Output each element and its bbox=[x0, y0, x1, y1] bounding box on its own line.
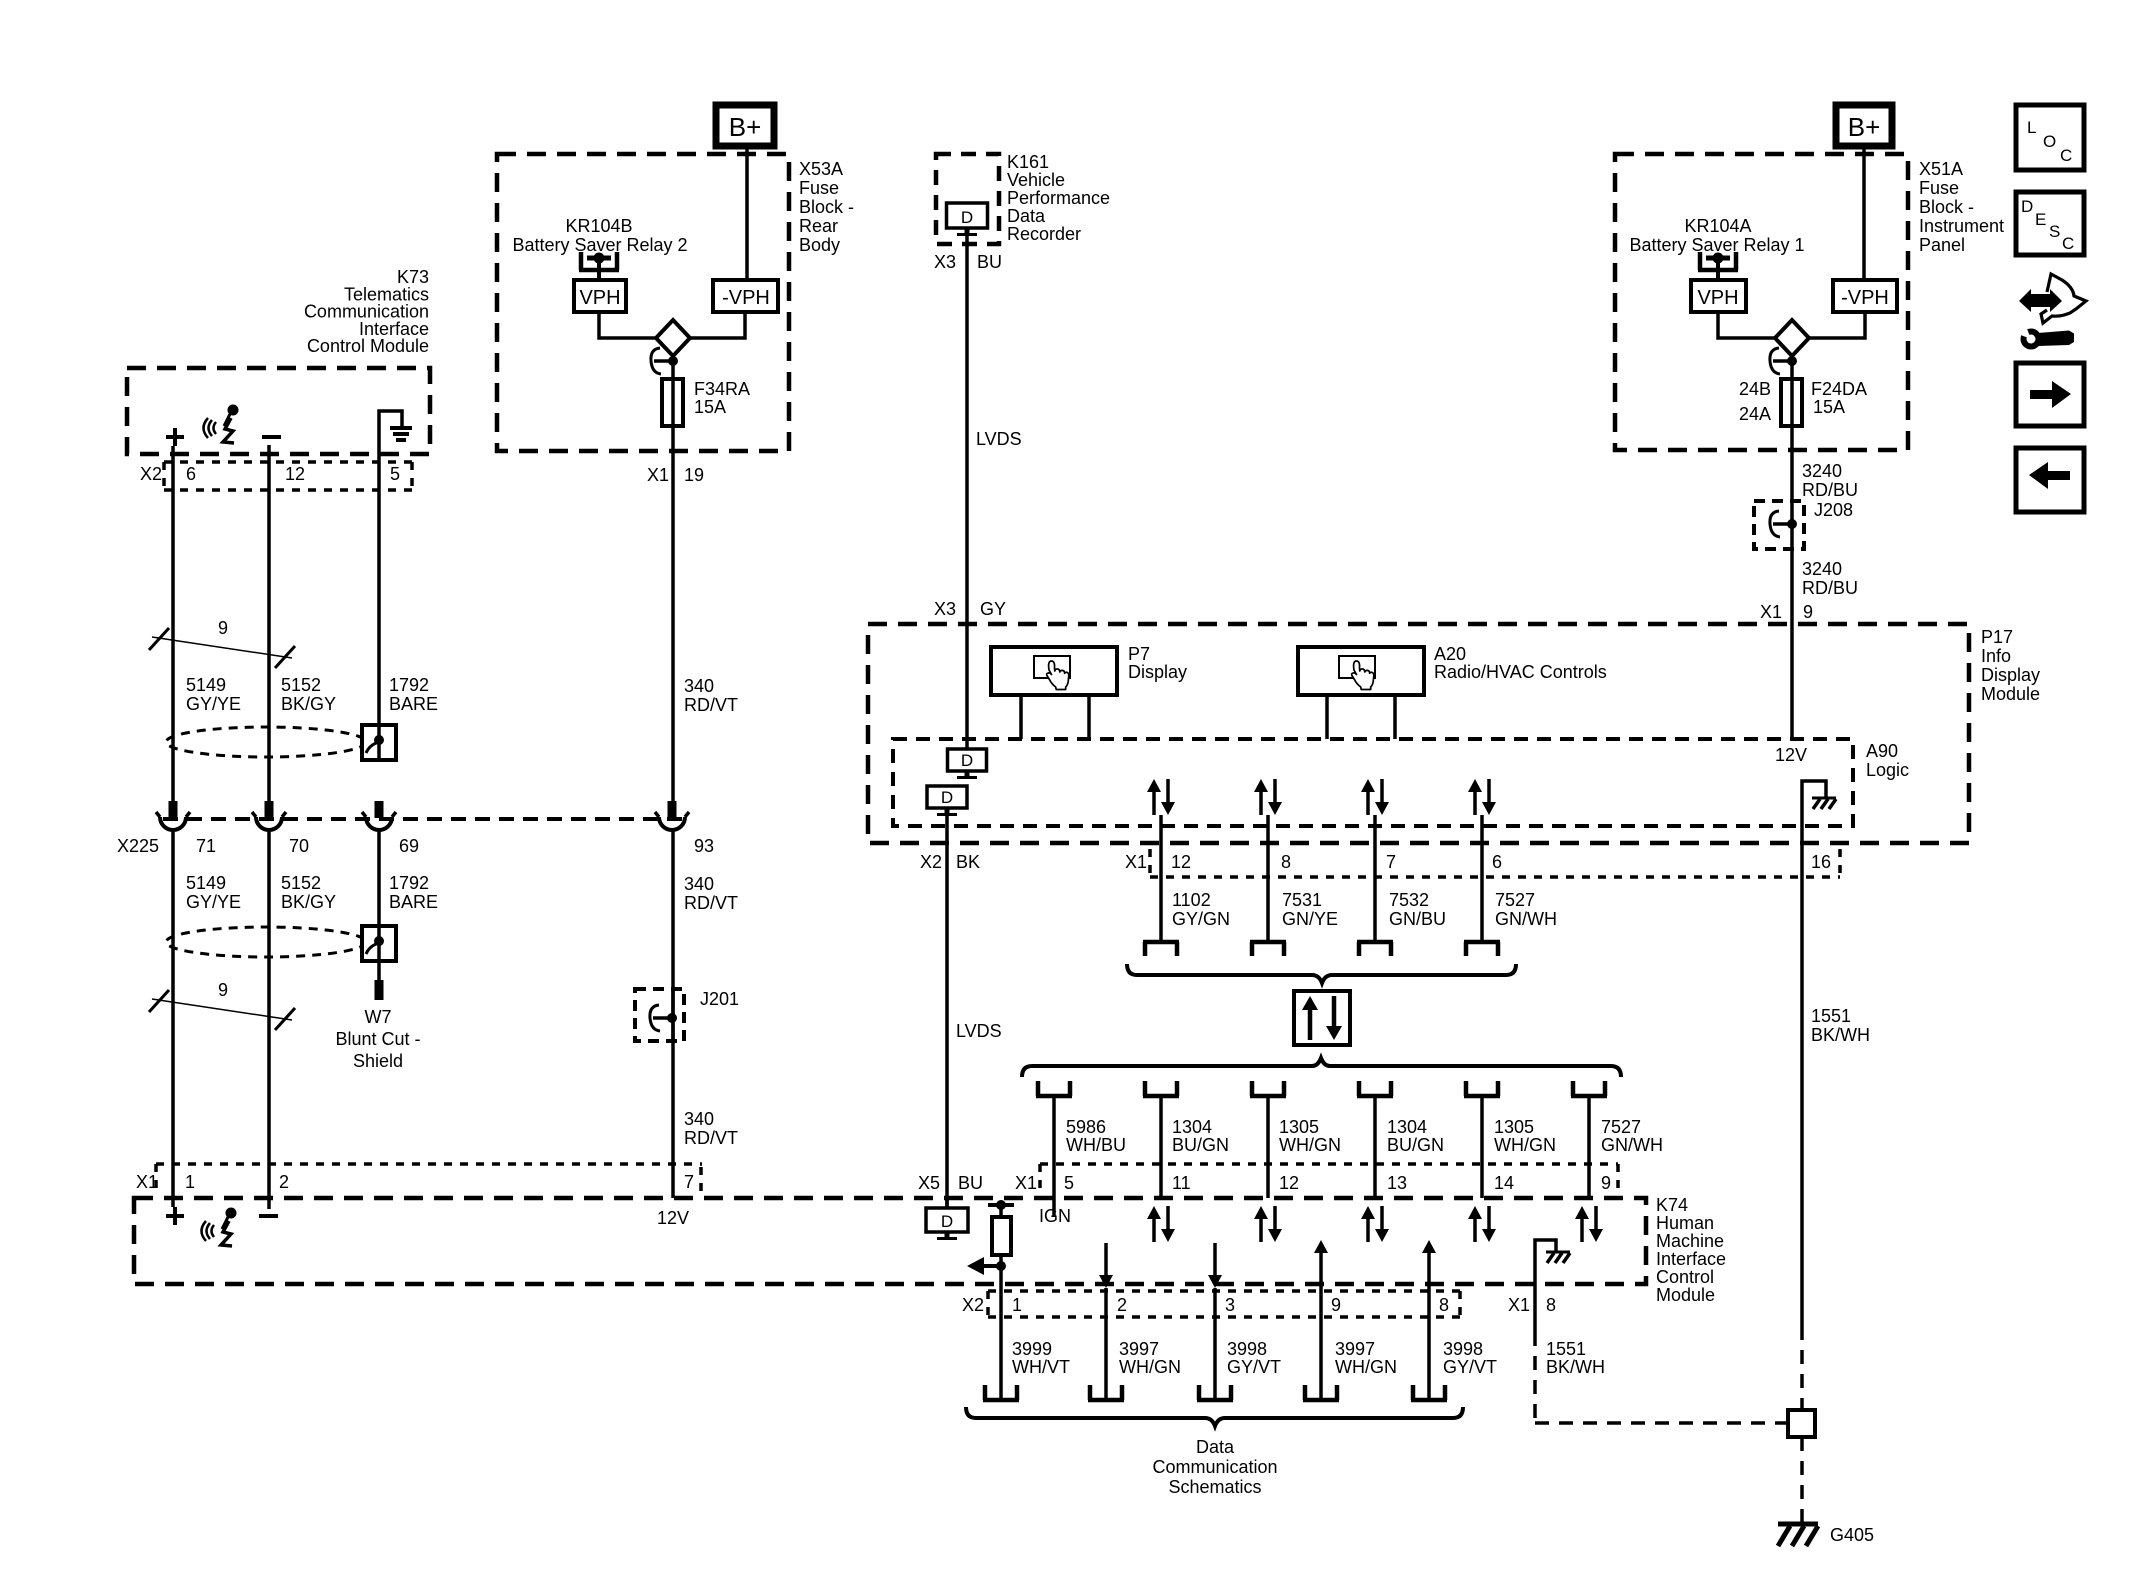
svg-text:12: 12 bbox=[1279, 1173, 1299, 1193]
svg-text:WH/GN: WH/GN bbox=[1119, 1357, 1181, 1377]
svg-text:Block -: Block - bbox=[799, 197, 854, 217]
svg-text:1792: 1792 bbox=[389, 873, 429, 893]
svg-text:X2: X2 bbox=[140, 464, 162, 484]
svg-text:Battery Saver Relay 1: Battery Saver Relay 1 bbox=[1629, 235, 1804, 255]
svg-text:340: 340 bbox=[684, 1109, 714, 1129]
svg-text:Blunt Cut -: Blunt Cut - bbox=[335, 1029, 420, 1049]
svg-text:GN/YE: GN/YE bbox=[1282, 909, 1338, 929]
svg-text:Data: Data bbox=[1196, 1437, 1235, 1457]
svg-text:GN/WH: GN/WH bbox=[1495, 909, 1557, 929]
svg-text:D: D bbox=[941, 788, 953, 807]
svg-text:B+: B+ bbox=[1848, 112, 1881, 142]
svg-text:F34RA: F34RA bbox=[694, 379, 750, 399]
svg-text:1551: 1551 bbox=[1546, 1339, 1586, 1359]
svg-text:Fuse: Fuse bbox=[1919, 178, 1959, 198]
svg-text:Panel: Panel bbox=[1919, 235, 1965, 255]
svg-text:-VPH: -VPH bbox=[722, 287, 770, 309]
svg-text:3997: 3997 bbox=[1335, 1339, 1375, 1359]
svg-text:71: 71 bbox=[196, 836, 216, 856]
svg-text:Human: Human bbox=[1656, 1213, 1714, 1233]
svg-text:E: E bbox=[2035, 210, 2046, 229]
svg-text:WH/GN: WH/GN bbox=[1335, 1357, 1397, 1377]
svg-text:5: 5 bbox=[1064, 1173, 1074, 1193]
svg-text:WH/GN: WH/GN bbox=[1494, 1135, 1556, 1155]
svg-text:1: 1 bbox=[185, 1172, 195, 1192]
svg-text:12V: 12V bbox=[1775, 745, 1807, 765]
svg-text:D: D bbox=[2021, 197, 2033, 216]
svg-text:Battery Saver Relay 2: Battery Saver Relay 2 bbox=[512, 235, 687, 255]
svg-text:D: D bbox=[941, 1212, 953, 1231]
svg-text:D: D bbox=[961, 208, 973, 227]
svg-text:340: 340 bbox=[684, 874, 714, 894]
svg-text:5: 5 bbox=[390, 464, 400, 484]
svg-text:1305: 1305 bbox=[1494, 1117, 1534, 1137]
svg-text:6: 6 bbox=[186, 464, 196, 484]
svg-text:BK/GY: BK/GY bbox=[281, 694, 336, 714]
svg-text:GY/YE: GY/YE bbox=[186, 892, 241, 912]
svg-text:GN/WH: GN/WH bbox=[1601, 1135, 1663, 1155]
svg-text:D: D bbox=[961, 751, 973, 770]
svg-text:1551: 1551 bbox=[1811, 1006, 1851, 1026]
svg-text:X1: X1 bbox=[1015, 1173, 1037, 1193]
svg-text:S: S bbox=[2049, 222, 2060, 241]
svg-text:8: 8 bbox=[1281, 852, 1291, 872]
svg-text:A90: A90 bbox=[1866, 741, 1898, 761]
svg-text:LVDS: LVDS bbox=[976, 429, 1022, 449]
svg-text:7: 7 bbox=[1386, 852, 1396, 872]
svg-text:Instrument: Instrument bbox=[1919, 216, 2004, 236]
svg-text:70: 70 bbox=[289, 836, 309, 856]
svg-text:5149: 5149 bbox=[186, 675, 226, 695]
svg-text:5152: 5152 bbox=[281, 675, 321, 695]
svg-text:1792: 1792 bbox=[389, 675, 429, 695]
svg-text:24A: 24A bbox=[1739, 404, 1771, 424]
svg-text:Info: Info bbox=[1981, 646, 2011, 666]
svg-text:Interface: Interface bbox=[1656, 1249, 1726, 1269]
svg-text:X3: X3 bbox=[934, 599, 956, 619]
svg-text:J201: J201 bbox=[700, 989, 739, 1009]
svg-text:BARE: BARE bbox=[389, 694, 438, 714]
svg-text:X1: X1 bbox=[1508, 1295, 1530, 1315]
svg-text:BU/GN: BU/GN bbox=[1387, 1135, 1444, 1155]
svg-text:C: C bbox=[2062, 234, 2074, 253]
svg-text:RD/VT: RD/VT bbox=[684, 695, 738, 715]
svg-text:Machine: Machine bbox=[1656, 1231, 1724, 1251]
svg-text:9: 9 bbox=[1601, 1173, 1611, 1193]
svg-text:Vehicle: Vehicle bbox=[1007, 170, 1065, 190]
svg-text:5149: 5149 bbox=[186, 873, 226, 893]
svg-text:7531: 7531 bbox=[1282, 890, 1322, 910]
svg-text:WH/GN: WH/GN bbox=[1279, 1135, 1341, 1155]
svg-text:GN/BU: GN/BU bbox=[1389, 909, 1446, 929]
svg-text:Logic: Logic bbox=[1866, 760, 1909, 780]
svg-text:WH/VT: WH/VT bbox=[1012, 1357, 1070, 1377]
svg-text:Performance: Performance bbox=[1007, 188, 1110, 208]
svg-text:O: O bbox=[2043, 132, 2056, 151]
svg-text:F24DA: F24DA bbox=[1811, 379, 1867, 399]
svg-text:G405: G405 bbox=[1830, 1525, 1874, 1545]
svg-text:WH/BU: WH/BU bbox=[1066, 1135, 1126, 1155]
svg-text:BU: BU bbox=[977, 252, 1002, 272]
svg-text:3240: 3240 bbox=[1802, 461, 1842, 481]
svg-text:1304: 1304 bbox=[1172, 1117, 1212, 1137]
svg-text:3: 3 bbox=[1225, 1295, 1235, 1315]
svg-text:RD/BU: RD/BU bbox=[1802, 578, 1858, 598]
svg-text:X2: X2 bbox=[920, 852, 942, 872]
svg-text:KR104B: KR104B bbox=[565, 216, 632, 236]
svg-text:9: 9 bbox=[1803, 602, 1813, 622]
svg-text:RD/BU: RD/BU bbox=[1802, 480, 1858, 500]
svg-text:8: 8 bbox=[1439, 1295, 1449, 1315]
svg-text:12V: 12V bbox=[657, 1208, 689, 1228]
svg-text:X2: X2 bbox=[962, 1295, 984, 1315]
svg-text:9: 9 bbox=[218, 980, 228, 1000]
svg-text:X225: X225 bbox=[117, 836, 159, 856]
svg-text:K74: K74 bbox=[1656, 1195, 1688, 1215]
svg-text:-VPH: -VPH bbox=[1841, 287, 1889, 309]
svg-text:X51A: X51A bbox=[1919, 159, 1963, 179]
svg-text:Rear: Rear bbox=[799, 216, 838, 236]
svg-text:LVDS: LVDS bbox=[956, 1021, 1002, 1041]
svg-text:Body: Body bbox=[799, 235, 840, 255]
svg-text:8: 8 bbox=[1546, 1295, 1556, 1315]
svg-text:12: 12 bbox=[1171, 852, 1191, 872]
svg-text:X1: X1 bbox=[647, 465, 669, 485]
svg-text:Display: Display bbox=[1128, 662, 1187, 682]
svg-text:1: 1 bbox=[1012, 1295, 1022, 1315]
svg-text:Recorder: Recorder bbox=[1007, 224, 1081, 244]
svg-text:RD/VT: RD/VT bbox=[684, 1128, 738, 1148]
svg-text:BU/GN: BU/GN bbox=[1172, 1135, 1229, 1155]
svg-text:C: C bbox=[2060, 146, 2072, 165]
svg-text:GY: GY bbox=[980, 599, 1006, 619]
svg-text:GY/GN: GY/GN bbox=[1172, 909, 1230, 929]
svg-text:BU: BU bbox=[958, 1173, 983, 1193]
svg-text:5986: 5986 bbox=[1066, 1117, 1106, 1137]
svg-text:16: 16 bbox=[1811, 852, 1831, 872]
svg-text:BK: BK bbox=[956, 852, 980, 872]
svg-text:Radio/HVAC Controls: Radio/HVAC Controls bbox=[1434, 662, 1607, 682]
svg-text:11: 11 bbox=[1172, 1173, 1191, 1193]
svg-text:VPH: VPH bbox=[579, 287, 620, 309]
svg-text:Control: Control bbox=[1656, 1267, 1714, 1287]
svg-text:Fuse: Fuse bbox=[799, 178, 839, 198]
svg-text:7527: 7527 bbox=[1495, 890, 1535, 910]
svg-text:Shield: Shield bbox=[353, 1051, 403, 1071]
svg-text:9: 9 bbox=[218, 618, 228, 638]
svg-text:Data: Data bbox=[1007, 206, 1046, 226]
svg-text:69: 69 bbox=[399, 836, 419, 856]
svg-text:GY/VT: GY/VT bbox=[1227, 1357, 1281, 1377]
svg-text:Control Module: Control Module bbox=[307, 336, 429, 356]
svg-text:2: 2 bbox=[1117, 1295, 1127, 1315]
svg-text:1304: 1304 bbox=[1387, 1117, 1427, 1137]
svg-text:Block -: Block - bbox=[1919, 197, 1974, 217]
svg-text:X1: X1 bbox=[1125, 852, 1147, 872]
svg-text:J208: J208 bbox=[1814, 500, 1853, 520]
svg-text:15A: 15A bbox=[694, 397, 726, 417]
svg-text:3997: 3997 bbox=[1119, 1339, 1159, 1359]
svg-text:X1: X1 bbox=[136, 1172, 158, 1192]
svg-text:Communication: Communication bbox=[1152, 1457, 1277, 1477]
svg-text:VPH: VPH bbox=[1697, 287, 1738, 309]
svg-text:340: 340 bbox=[684, 676, 714, 696]
svg-text:3998: 3998 bbox=[1227, 1339, 1267, 1359]
svg-text:7: 7 bbox=[684, 1172, 694, 1192]
svg-text:1305: 1305 bbox=[1279, 1117, 1319, 1137]
svg-text:BK/WH: BK/WH bbox=[1546, 1357, 1605, 1377]
svg-text:12: 12 bbox=[285, 464, 305, 484]
svg-text:P17: P17 bbox=[1981, 627, 2013, 647]
svg-text:14: 14 bbox=[1494, 1173, 1514, 1193]
svg-text:X3: X3 bbox=[934, 252, 956, 272]
svg-text:93: 93 bbox=[694, 836, 714, 856]
svg-text:L: L bbox=[2027, 118, 2036, 137]
svg-text:5152: 5152 bbox=[281, 873, 321, 893]
svg-text:KR104A: KR104A bbox=[1684, 216, 1751, 236]
svg-text:X53A: X53A bbox=[799, 159, 843, 179]
svg-text:X1: X1 bbox=[1760, 602, 1782, 622]
svg-text:B+: B+ bbox=[729, 112, 762, 142]
svg-text:6: 6 bbox=[1492, 852, 1502, 872]
svg-text:RD/VT: RD/VT bbox=[684, 893, 738, 913]
svg-text:BK/WH: BK/WH bbox=[1811, 1025, 1870, 1045]
svg-text:24B: 24B bbox=[1739, 379, 1771, 399]
svg-text:K161: K161 bbox=[1007, 152, 1049, 172]
svg-text:15A: 15A bbox=[1813, 397, 1845, 417]
svg-text:1102: 1102 bbox=[1172, 890, 1211, 910]
svg-text:19: 19 bbox=[684, 465, 704, 485]
svg-text:2: 2 bbox=[279, 1172, 289, 1192]
svg-text:W7: W7 bbox=[365, 1007, 392, 1027]
svg-text:GY/YE: GY/YE bbox=[186, 694, 241, 714]
svg-text:3998: 3998 bbox=[1443, 1339, 1483, 1359]
svg-text:Module: Module bbox=[1981, 684, 2040, 704]
svg-text:3240: 3240 bbox=[1802, 559, 1842, 579]
svg-text:Module: Module bbox=[1656, 1285, 1715, 1305]
svg-text:GY/VT: GY/VT bbox=[1443, 1357, 1497, 1377]
svg-text:3999: 3999 bbox=[1012, 1339, 1052, 1359]
svg-text:X5: X5 bbox=[918, 1173, 940, 1193]
svg-text:9: 9 bbox=[1331, 1295, 1341, 1315]
svg-text:A20: A20 bbox=[1434, 644, 1466, 664]
svg-text:13: 13 bbox=[1387, 1173, 1407, 1193]
svg-text:7527: 7527 bbox=[1601, 1117, 1641, 1137]
svg-text:BK/GY: BK/GY bbox=[281, 892, 336, 912]
svg-text:7532: 7532 bbox=[1389, 890, 1429, 910]
svg-text:Schematics: Schematics bbox=[1168, 1477, 1261, 1497]
svg-text:Display: Display bbox=[1981, 665, 2040, 685]
svg-text:P7: P7 bbox=[1128, 644, 1150, 664]
svg-text:BARE: BARE bbox=[389, 892, 438, 912]
